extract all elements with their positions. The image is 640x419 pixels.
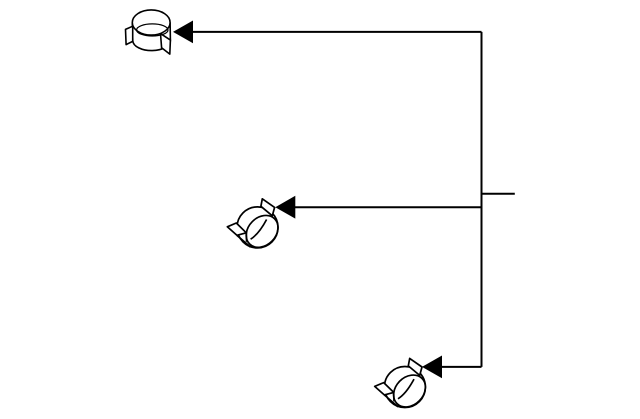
icon: middle store (bomb tail view) [227,199,284,254]
left fin [126,26,133,44]
hidden fin right edge [245,233,247,242]
wire: vertical trunk [481,32,483,367]
wire: right stub [481,193,515,195]
icon: bottom store (bomb tail view) [375,358,432,413]
inner highlight arc [251,220,267,240]
right fin [161,34,171,55]
left fin [227,223,246,235]
icon: top store (cylinder with fins) [126,10,171,54]
upper-right fin [261,199,275,216]
hidden fin long edge [237,235,251,247]
arrowhead top [173,21,193,44]
cylinder body sides and bottom [132,23,170,51]
body circle [237,207,278,248]
arrowhead bottom [422,356,442,379]
outer rim ellipse [132,10,170,35]
tail ring ellipse [240,209,285,254]
wire: middle branch [295,206,482,208]
wire: top branch from junction to top arrow [193,31,482,33]
arrowhead middle [275,196,295,219]
inner rim ellipse [137,24,168,36]
wire: bottom branch [442,366,482,368]
